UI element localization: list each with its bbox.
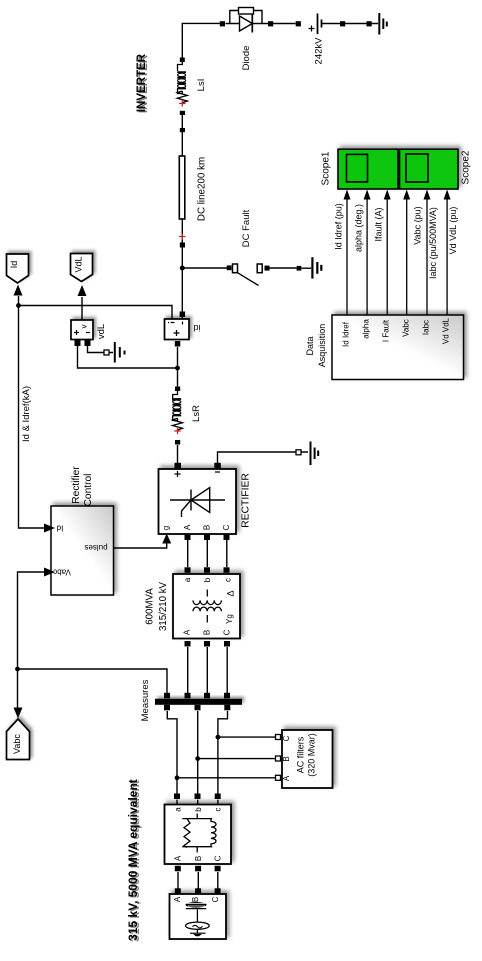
resistor LsI zigzag [177,91,187,104]
svg-text:alpha (deg.): alpha (deg.) [354,204,364,252]
junction node Id wire [16,303,21,308]
svg-text:C: C [222,524,231,530]
port square rectifier plus [175,463,182,470]
block RECTIFIER [159,469,237,534]
wire measures to source phase a [167,711,177,805]
port square rectifier C [224,535,230,541]
block Data Acquisition [332,315,464,380]
wire DC fault right segment [270,267,312,269]
battery plus sign [309,26,315,32]
red artifact LsI [179,101,186,107]
svg-text:AC filters: AC filters [296,736,306,773]
wire id block to LsR [177,347,179,387]
svg-text:id: id [193,323,200,333]
scope Scope1 block [338,149,398,189]
svg-text:c: c [224,578,233,582]
ground vdL [115,342,125,363]
wire rectifier minus to ground [218,452,309,463]
svg-text:v: v [80,325,89,329]
svg-text:Data: Data [305,336,315,355]
port square source imp A bottom [175,866,181,872]
port label plus vdL [74,330,79,335]
svg-text:g: g [162,526,171,530]
wire diode to battery [226,23,296,25]
port square breaker left [227,265,232,270]
junction node tap a [175,775,180,780]
block AC filters [282,730,333,788]
port square measures c bottom [224,705,230,711]
breaker blade DC Fault [238,273,259,286]
svg-text:Measures: Measures [140,679,151,721]
inductor icon coil vertical [211,819,216,847]
wire i output of id block [19,296,173,319]
svg-text:c: c [214,808,223,812]
wire DC fault branch [182,267,228,269]
port square transformer b [204,567,210,573]
wire vdL v output to VdL tag [81,297,83,320]
thyristor symbol [170,488,225,518]
port square DC fault ground [297,266,302,271]
resistor icon zigzag vertical [184,819,190,848]
junction node tap b [195,756,200,761]
svg-text:pulses: pulses [84,543,107,552]
source icon lead [196,910,198,933]
svg-text:A: A [183,524,192,530]
goto tag Id [7,254,29,283]
port square transformer c [224,567,230,573]
breaker contact right [257,264,262,273]
svg-text:b: b [194,807,203,812]
wire Vabc measure to control and tag [18,572,168,709]
port square AC filters B [276,756,281,761]
port square rectifier B [204,535,210,541]
junction node vabc [15,667,20,672]
wire AC filter tap phase c [218,736,276,738]
wire vdL plus to junction [78,346,178,368]
port square source imp a wire [174,794,180,800]
svg-text:Vd VdL: Vd VdL [442,317,451,344]
wire DC line to junction to id block [181,248,183,320]
measures bus bar [155,699,242,705]
red artifact LsR [174,428,181,434]
source icon sine ellipse [186,922,210,929]
wire battery to ground [322,23,379,25]
port square id top [180,312,186,318]
wire arrow Vd VdL (pu) [446,198,448,315]
port square ground right 1 [340,21,345,26]
port marks i of id block [168,322,183,325]
ground rectifier minus [311,442,319,466]
svg-text:315 kV, 5000 MVA equivalent: 315 kV, 5000 MVA equivalent [126,779,140,941]
wire AC filter tap phase b [198,758,276,760]
wire arrow Iabc (pu/500MVA) [426,198,428,315]
svg-text:A: A [173,896,182,902]
port square source imp B bottom [195,866,201,872]
svg-text:315/210 kV: 315/210 kV [158,581,169,631]
port square vdL minus [85,340,91,346]
svg-text:LsI: LsI [196,79,207,92]
svg-text:Diode: Diode [241,46,252,71]
svg-text:a: a [183,577,192,582]
svg-text:a: a [174,807,183,812]
port square LsR bottom [175,440,180,445]
port square source imp C bottom [215,866,221,872]
port square rectifier A [185,535,191,541]
svg-text:Vabc: Vabc [12,734,22,754]
port square breaker right [265,266,270,271]
port square AC filters C [276,735,281,740]
battery 242kV short plate [321,20,323,28]
scope Scope1 screen [347,154,368,182]
junction node below id [175,366,180,371]
wire pulses to g port [114,543,167,548]
port square transformer A [185,641,191,647]
arrowhead into VdL tag [78,285,87,296]
port square source C top [215,888,221,894]
port square source B top [195,888,201,894]
breaker contact left [233,264,238,273]
port square LsI bottom [180,111,185,115]
diode D1 snubber resistor [239,8,254,15]
diode D1 triangle [240,16,253,31]
scope Scope2 screen [406,154,428,182]
wire AC filter tap phase a [177,777,276,779]
svg-text:Id & Idref(kA): Id & Idref(kA) [21,386,32,442]
resistor LsR zigzag [173,418,183,431]
svg-text:C: C [223,629,232,635]
inductor LsR coil [172,391,181,421]
transformer block 600MVA [173,574,240,639]
inductor LsI coil [177,62,186,94]
arrowhead into Id port [44,524,55,533]
svg-text:Rectifier: Rectifier [71,466,82,504]
block id current measurement [165,319,190,340]
wire measures to source phase b [197,711,199,805]
svg-text:b: b [203,577,212,582]
svg-text:Iabc: Iabc [422,320,431,335]
arrowhead into g port [162,534,171,544]
svg-text:C: C [211,896,220,902]
port square measures b top [204,693,210,699]
svg-text:Asquisition: Asquisition [317,324,327,368]
svg-text:Id: Id [9,261,19,269]
block Rectifier Control [51,506,114,595]
svg-text:C: C [214,855,223,861]
wire LsI to DC line [181,115,183,243]
wire measures to source phase c [218,711,228,805]
wire transformer abc to measures bar [188,647,228,693]
port square LsI top [180,58,185,63]
svg-text:LsR: LsR [191,405,202,422]
port label minus vdL [86,332,90,334]
svg-text:Vabc: Vabc [402,319,411,337]
wire vdL minus to ground [88,346,114,353]
arrowhead into Vabc port [44,568,55,577]
svg-text:242kV: 242kV [314,37,325,65]
svg-text:Id Idref (pu): Id Idref (pu) [334,203,344,250]
svg-text:Scope2: Scope2 [461,150,472,184]
svg-text:B: B [191,897,200,902]
svg-text:Vd VdL (pu): Vd VdL (pu) [448,207,458,255]
port square measures a top [185,693,191,699]
wire arrow alpha (deg.) [366,198,368,315]
svg-text:600MVA: 600MVA [145,588,156,625]
scope Scope2 block [400,149,459,189]
transformer winding 2 [193,607,221,622]
wire source impedance to source [178,872,218,889]
port label minus rectifier [215,471,220,473]
port square rectifier minus [214,463,221,470]
svg-text:VdL: VdL [74,256,84,272]
port square source A top [175,888,181,894]
port square AC filters A [276,775,281,780]
wire Id to rectifier control [19,306,45,529]
diode D1 cathode bar [251,15,253,33]
port square vdL ground [104,350,109,355]
svg-text:Vabc: Vabc [53,568,71,577]
svg-text:Id: Id [57,524,64,533]
port square measures c top [224,693,230,699]
wire LsR to rectifier [177,445,179,463]
svg-text:B: B [194,856,203,861]
port square DC line top [180,128,185,132]
svg-text:Scope1: Scope1 [321,151,332,185]
port square transformer a [185,567,191,573]
port square vdL plus [75,340,81,346]
goto tag VdL [71,254,93,282]
DC line block [179,156,185,219]
port square transformer B [204,641,210,647]
block vdL voltage measurement [71,320,93,340]
port square transformer C [224,641,230,647]
block three-phase source [170,894,227,939]
port square LsR top [175,387,180,392]
port square source imp c wire [215,794,221,800]
wire main DC line top corner [182,23,220,57]
arrowhead into Id tag [14,285,23,296]
svg-text:A: A [282,775,291,781]
port label plus rectifier [175,471,181,477]
junction node tap c [216,735,221,740]
svg-text:Id Idref: Id Idref [342,321,351,347]
svg-text:A: A [174,855,183,861]
port square ground right 2 [367,21,372,26]
diode D1 snubber loop [230,11,262,24]
port square rectifier ground [296,450,301,455]
svg-text:INVERTER: INVERTER [136,53,148,112]
svg-text:A: A [183,629,192,635]
red artifact below DC line [179,234,186,241]
junction node DC fault tap [180,266,185,271]
wire arrow Ifault (A) [386,198,388,315]
ground inverter side [379,13,387,35]
svg-text:Control: Control [83,474,94,507]
port square measures b bottom [195,705,201,711]
svg-text:Δ: Δ [226,590,236,596]
goto tag Vabc [7,719,30,760]
svg-text:B: B [282,756,291,761]
battery 242kV long plate [317,14,319,35]
svg-text:C: C [282,735,291,741]
source icon coil bar [186,905,207,909]
source icon ground tick [190,932,206,934]
block source impedance RL [165,805,232,865]
svg-text:B: B [203,630,212,635]
port square source imp b wire [195,794,201,800]
svg-text:I Fault: I Fault [382,319,391,342]
wire arrow Id Idref (pu) [346,198,348,315]
port square DC line bottom [180,243,185,248]
svg-text:Yg: Yg [225,614,234,624]
svg-text:DC Fault: DC Fault [241,209,252,247]
svg-text:B: B [203,525,212,530]
wire arrow Vabc (pu) [406,198,408,315]
arrowhead into Vabc tag [14,708,23,719]
port square measures vabc [164,693,170,699]
port label plus id block [174,330,180,336]
port square id bottom [175,341,181,347]
ground DC fault [312,257,321,278]
svg-text:(320 Mvar): (320 Mvar) [307,733,317,777]
port square measures a bottom [164,705,170,711]
transformer winding 1 [193,590,221,605]
port square battery left [296,21,301,26]
svg-text:alpha: alpha [362,319,371,339]
svg-text:RECTIFIER: RECTIFIER [241,473,252,528]
port square diode left [220,21,225,26]
svg-text:vdL: vdL [96,324,107,339]
svg-text:Vabc (pu): Vabc (pu) [413,206,423,244]
port square diode right [268,21,273,26]
RL parallel icon rails [182,814,212,853]
svg-text:Iabc (pu/500MVA): Iabc (pu/500MVA) [428,207,438,279]
svg-text:Ifault (A): Ifault (A) [374,207,384,241]
svg-text:DC line200 km: DC line200 km [197,157,208,221]
wire rectifier ABC to transformer [188,540,227,567]
